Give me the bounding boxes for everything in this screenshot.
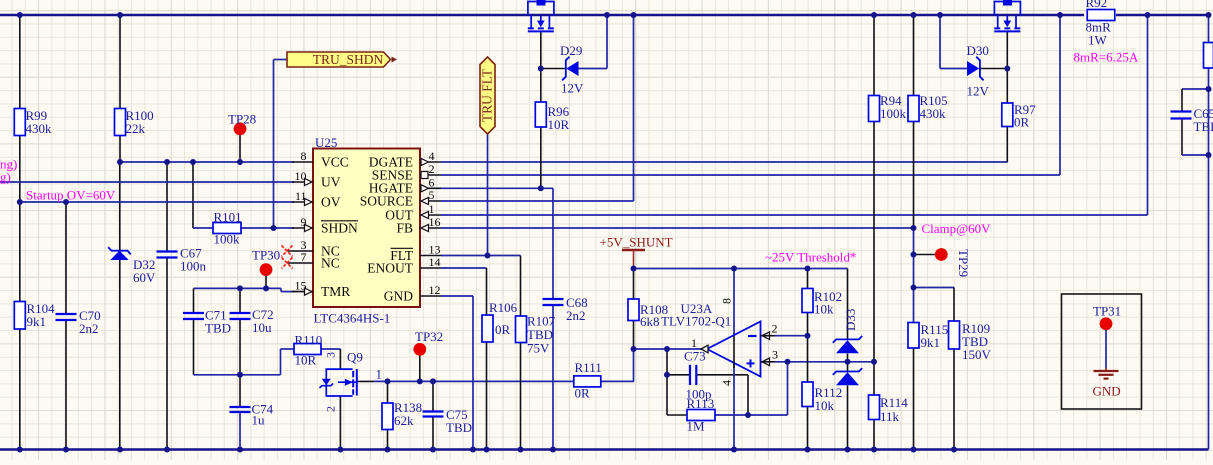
svg-text:2n2: 2n2 — [79, 321, 99, 336]
svg-text:g): g) — [0, 170, 11, 185]
resistor R92 — [1086, 0, 1115, 35]
svg-text:12V: 12V — [561, 81, 584, 96]
wire D30 anode lead — [940, 68, 967, 70]
wire C74 to gnd bus — [239, 412, 241, 450]
svg-text:TP30: TP30 — [252, 248, 280, 263]
svg-text:1u: 1u — [252, 413, 266, 428]
resistor R94 — [869, 93, 907, 122]
wire VIN bus top — [0, 14, 1084, 16]
junction — [805, 447, 811, 453]
wire feedback branch — [666, 349, 668, 415]
svg-text:1: 1 — [376, 367, 383, 382]
wire R102 bottom — [807, 313, 809, 336]
junction — [117, 12, 123, 18]
wire TRU FLT port to FLT line — [487, 134, 489, 256]
junction — [417, 378, 423, 384]
junction — [805, 266, 811, 272]
capacitor C72 — [230, 307, 274, 335]
junction — [731, 266, 737, 272]
junction — [263, 285, 269, 291]
wire C72 top lead — [239, 288, 241, 313]
svg-text:5: 5 — [429, 188, 435, 202]
wire to R109 — [914, 287, 955, 289]
resistor R97 — [1002, 102, 1036, 130]
capacitor C75 — [423, 407, 473, 435]
wire C74 top lead — [239, 375, 241, 407]
resistor R100 — [115, 108, 154, 136]
svg-text:10k: 10k — [815, 398, 835, 413]
resistor R108 — [628, 299, 639, 321]
wire Q-dg gate to R97 — [1006, 31, 1008, 103]
junction — [237, 159, 243, 165]
junction — [117, 447, 123, 453]
wire R110 left lead — [281, 348, 295, 350]
wire C72 bottom lead — [239, 319, 241, 375]
wire VCC to D32 — [119, 162, 121, 251]
junction — [518, 447, 524, 453]
wire TRU_SHDN to SHDN pin — [273, 60, 275, 229]
svg-text:+5V_SHUNT: +5V_SHUNT — [600, 235, 673, 250]
wire R114 top — [873, 362, 875, 395]
svg-text:0R: 0R — [575, 386, 591, 401]
junction — [845, 447, 851, 453]
wire R138 bottom — [387, 430, 389, 450]
svg-text:150V: 150V — [962, 347, 992, 362]
zener diode D32 — [108, 247, 156, 285]
capacitor C71 — [183, 308, 231, 336]
junction — [117, 159, 123, 165]
transistor Q sense — [994, 0, 1020, 31]
junction — [731, 447, 737, 453]
wire C65 top lead — [1181, 89, 1183, 112]
junction — [871, 12, 877, 18]
svg-text:16: 16 — [429, 215, 441, 229]
svg-text:4: 4 — [720, 380, 734, 386]
wire R107 to gnd bus — [520, 343, 522, 450]
wire +5V to D33 — [847, 269, 849, 340]
junction — [1004, 66, 1010, 72]
svg-text:60V: 60V — [133, 270, 156, 285]
wire opamp pin 4 to gnd bus — [733, 363, 735, 450]
svg-text:22k: 22k — [126, 121, 146, 136]
wire R105 top — [913, 15, 915, 96]
svg-text:R110: R110 — [295, 333, 323, 348]
junction — [470, 447, 476, 453]
resistor R106 — [482, 315, 493, 342]
junction — [911, 252, 917, 258]
wire Q-hs gate to R96 — [540, 31, 542, 102]
resistor R138 — [382, 400, 422, 430]
label R109 — [962, 321, 992, 362]
svg-text:3: 3 — [324, 352, 338, 358]
svg-text:4: 4 — [429, 149, 435, 163]
svg-text:D30: D30 — [967, 43, 989, 58]
junction — [604, 12, 610, 18]
svg-text:8: 8 — [301, 149, 307, 163]
wire R109 top — [953, 288, 955, 322]
test point TP28 — [228, 112, 256, 136]
wire UV line — [0, 181, 294, 183]
zener diode D29 — [560, 43, 584, 96]
wire C65 top branch — [1182, 88, 1209, 90]
svg-text:Q9: Q9 — [347, 350, 363, 365]
wire R109 bottom — [953, 349, 955, 450]
capacitor C67 — [157, 246, 207, 274]
svg-text:R113: R113 — [687, 396, 715, 411]
wire R112 top — [807, 336, 809, 382]
resistor R109 — [949, 321, 960, 349]
wire R104 to gnd bus — [19, 329, 21, 450]
wire comparator output to R111 — [633, 349, 635, 381]
wire pin2 line — [775, 335, 808, 337]
svg-text:Clamp@60V: Clamp@60V — [922, 221, 992, 236]
svg-text:TRU_SHDN: TRU_SHDN — [313, 52, 384, 67]
junction — [845, 359, 851, 365]
wire FB node down — [913, 228, 915, 323]
junction — [664, 372, 670, 378]
wire IC GND to bus — [472, 296, 474, 450]
resistor right edge — [1204, 43, 1213, 69]
no-connect X pin 7 — [282, 258, 293, 269]
wire Q9 drain stub — [357, 380, 374, 382]
svg-text:R92: R92 — [1086, 0, 1108, 10]
label R106 — [489, 300, 518, 337]
junction — [664, 346, 670, 352]
svg-text:100k: 100k — [880, 106, 907, 121]
svg-text:D33: D33 — [843, 309, 858, 331]
junction — [550, 447, 556, 453]
wire HGATE line — [441, 187, 553, 189]
wire R97 to DGATE — [1006, 127, 1008, 163]
wire OUT line — [441, 214, 1148, 216]
junction — [17, 12, 23, 18]
wire R96 to HGATE — [540, 127, 542, 188]
wire comparator output line — [634, 348, 702, 350]
svg-text:TLV1702-Q1: TLV1702-Q1 — [661, 314, 731, 329]
wire Q9 drain line — [374, 380, 574, 382]
wire TP30 stub — [265, 276, 267, 288]
wire TMR line — [194, 287, 282, 289]
wire right column down — [1208, 68, 1210, 450]
op-amp U23A comparator — [661, 298, 778, 386]
svg-text:TMR: TMR — [321, 284, 350, 299]
wire R101 left lead — [193, 227, 213, 229]
junction — [385, 447, 391, 453]
resistor R101 — [213, 210, 242, 247]
svg-text:ENOUT: ENOUT — [367, 261, 413, 276]
junction — [871, 359, 877, 365]
wire R108 top — [633, 269, 635, 300]
IC U25 LTC4364HS-1 — [287, 135, 441, 326]
junction — [337, 447, 343, 453]
wire C68 top lead — [552, 188, 554, 299]
dual zener diode D33 — [833, 309, 862, 386]
svg-text:UV: UV — [321, 175, 341, 190]
wire C73 right lead — [697, 374, 749, 376]
label R107 — [527, 314, 556, 356]
junction — [631, 346, 637, 352]
svg-text:2: 2 — [324, 406, 338, 412]
wire R113 left lead — [667, 414, 687, 416]
svg-text:8mR=6.25A: 8mR=6.25A — [1074, 50, 1139, 65]
wire SENSE to R92 left — [1059, 15, 1061, 175]
svg-text:~25V Threshold*: ~25V Threshold* — [765, 250, 856, 265]
wire C70 to gnd bus — [65, 320, 67, 450]
junction — [631, 12, 637, 18]
junction — [17, 199, 23, 205]
transistor Q high-side — [528, 0, 554, 31]
svg-text:TP31: TP31 — [1093, 304, 1121, 319]
wire R110 to Q9 gate — [321, 348, 340, 350]
test point TP29 — [935, 248, 948, 261]
wire VCC line — [120, 161, 294, 163]
wire R94 top — [873, 15, 875, 96]
svg-text:430k: 430k — [26, 121, 53, 136]
wire C68 to gnd bus — [552, 305, 554, 450]
svg-text:0R: 0R — [495, 322, 511, 337]
resistor R105 — [908, 93, 948, 122]
svg-text:9k1: 9k1 — [27, 314, 47, 329]
wire feedback to pin3 — [787, 362, 789, 415]
wire pin3 line — [775, 361, 875, 363]
wire R105 to FB — [913, 121, 915, 228]
svg-text:7: 7 — [301, 250, 307, 264]
wire Q9 gate pin 3 — [339, 349, 341, 369]
junction — [385, 378, 391, 384]
svg-text:2: 2 — [429, 162, 435, 176]
junction — [237, 447, 243, 453]
junction — [871, 447, 877, 453]
label R114 — [880, 395, 908, 424]
junction — [911, 12, 917, 18]
junction — [1206, 12, 1212, 18]
svg-text:8: 8 — [720, 298, 734, 304]
wire GND bus bottom — [0, 448, 1209, 450]
wire FB line — [441, 227, 914, 229]
wire D29 anode lead — [579, 68, 608, 70]
port TRU FLT — [480, 57, 495, 134]
svg-text:1: 1 — [429, 202, 435, 216]
wire FLT to R107 — [520, 256, 522, 317]
svg-text:12V: 12V — [967, 84, 990, 99]
port TRU_SHDN — [287, 52, 397, 67]
wire R99 top — [19, 15, 21, 109]
svg-text:11k: 11k — [880, 409, 900, 424]
svg-text:10R: 10R — [548, 117, 570, 132]
junction — [1206, 152, 1212, 158]
wire C75 bottom — [432, 417, 434, 450]
svg-text:D29: D29 — [560, 43, 582, 58]
svg-text:R114: R114 — [880, 395, 908, 410]
capacitor C68 — [543, 295, 588, 323]
junction — [631, 266, 637, 272]
capacitor C65 — [1171, 106, 1213, 134]
wire D30 cathode lead — [980, 68, 1007, 70]
wire OUT to R92 right — [1147, 15, 1149, 215]
wire VCC to R101 — [192, 162, 194, 228]
junction — [63, 447, 69, 453]
resistor R112 — [802, 382, 813, 407]
wire +5V_SHUNT line — [634, 268, 848, 270]
wire D29 to bus — [606, 15, 608, 69]
svg-text:VCC: VCC — [321, 155, 349, 170]
junction — [1145, 12, 1151, 18]
no-connect X pin 3 — [282, 246, 293, 257]
resistor R104 — [14, 301, 55, 329]
test point TP32 — [413, 329, 443, 356]
svg-text:Startup OV=60V: Startup OV=60V — [26, 188, 116, 203]
wire R100 top — [119, 15, 121, 109]
svg-text:TP32: TP32 — [415, 329, 443, 344]
resistor R99 — [14, 108, 52, 136]
junction — [485, 253, 491, 259]
junction — [937, 12, 943, 18]
svg-text:SHDN: SHDN — [321, 221, 358, 236]
junction — [164, 447, 170, 453]
wire D29 cathode lead — [541, 68, 566, 70]
svg-text:C73: C73 — [684, 349, 706, 364]
wire R115 bottom — [913, 348, 915, 450]
wire C65 bottom branch — [1182, 154, 1209, 156]
svg-text:2: 2 — [772, 322, 778, 336]
svg-text:TRU FLT: TRU FLT — [480, 68, 495, 122]
junction — [164, 159, 170, 165]
wire TP28 stub — [239, 135, 241, 162]
svg-text:1M: 1M — [687, 419, 706, 434]
svg-text:10k: 10k — [814, 302, 834, 317]
resistor R96 — [535, 102, 569, 132]
wire TP32 stub — [419, 356, 421, 382]
junction — [1206, 86, 1212, 92]
label R112 — [815, 385, 843, 413]
transistor Q9 — [320, 350, 383, 413]
junction — [17, 447, 23, 453]
wire R102 top — [807, 269, 809, 289]
wire C67 to gnd bus — [166, 258, 168, 450]
wire OV line — [20, 201, 294, 203]
svg-text:1W: 1W — [1088, 33, 1108, 48]
junction — [237, 372, 243, 378]
wire C71 top lead — [193, 288, 195, 313]
wire opamp pin 8 supply — [733, 269, 735, 337]
junction — [1057, 12, 1063, 18]
wire R111 right lead — [601, 380, 634, 382]
resistor R114 — [869, 395, 880, 420]
wire R110 left drop — [280, 349, 282, 375]
wire D30 to bus — [939, 15, 941, 69]
resistor R102 — [802, 289, 813, 313]
wire port TRU_SHDN stub — [274, 59, 288, 61]
resistor R111 — [574, 360, 602, 401]
wire R94 to pin3 line — [873, 121, 875, 362]
svg-text:SOURCE: SOURCE — [360, 194, 413, 209]
svg-text:75V: 75V — [527, 341, 550, 356]
svg-text:10R: 10R — [295, 353, 317, 368]
wire C65 bottom lead — [1181, 119, 1183, 156]
wire R99 to R104 — [19, 136, 21, 302]
wire C75 top — [432, 381, 434, 411]
svg-text:62k: 62k — [394, 413, 414, 428]
svg-text:GND: GND — [1093, 384, 1121, 399]
wire R113 right line — [715, 414, 788, 416]
junction — [538, 185, 544, 191]
wire ENOUT line — [441, 267, 487, 269]
wire C73 left lead — [667, 374, 690, 376]
svg-text:R111: R111 — [575, 360, 602, 375]
resistor R113 — [687, 396, 716, 434]
svg-text:0R: 0R — [1014, 115, 1030, 130]
label R92 extra — [1074, 33, 1139, 65]
wire R112 bottom — [807, 407, 809, 450]
wire SENSE line — [441, 174, 1060, 176]
wire Q9 source pin 2 — [339, 396, 341, 450]
svg-text:TBD: TBD — [205, 321, 231, 336]
wire VCC to C67 — [166, 162, 168, 252]
wire TP29 stub — [914, 254, 936, 256]
wire OV to C70 — [65, 202, 67, 314]
svg-text:3: 3 — [772, 348, 778, 362]
wire TMR jog — [280, 288, 282, 291]
wire R108 bottom — [633, 321, 635, 350]
junction — [745, 412, 751, 418]
svg-text:GND: GND — [384, 289, 413, 304]
svg-text:14: 14 — [429, 255, 441, 269]
wire D32 to gnd bus — [119, 260, 121, 450]
junction — [430, 447, 436, 453]
svg-text:2n2: 2n2 — [566, 308, 586, 323]
junction — [951, 447, 957, 453]
capacitor C73 — [684, 349, 712, 402]
svg-text:NC: NC — [321, 256, 340, 271]
svg-text:TP29: TP29 — [956, 249, 971, 277]
junction — [190, 159, 196, 165]
svg-text:U25: U25 — [315, 135, 337, 150]
label R115 — [921, 322, 949, 350]
wire FLT line — [441, 255, 521, 257]
svg-text:10u: 10u — [252, 320, 272, 335]
svg-text:LTC4364HS-1: LTC4364HS-1 — [314, 311, 391, 326]
capacitor C70 — [56, 308, 101, 336]
svg-text:100n: 100n — [180, 259, 207, 274]
wire R114 bottom — [873, 420, 875, 450]
capacitor C74 — [230, 402, 274, 428]
wire ENOUT to R106 — [486, 268, 488, 315]
label R108 — [640, 302, 668, 329]
wire SOURCE line — [441, 200, 634, 202]
svg-text:R101: R101 — [214, 210, 242, 225]
wire cap bottom line — [194, 374, 281, 376]
junction — [911, 285, 917, 291]
wire bus top right of R92 — [1116, 14, 1209, 16]
wire right column top — [1208, 15, 1210, 43]
svg-text:FB: FB — [396, 221, 413, 236]
svg-text:6k8: 6k8 — [640, 314, 660, 329]
zener diode D30 — [967, 43, 990, 99]
wire R138 top — [387, 381, 389, 403]
resistor R115 — [908, 323, 919, 349]
svg-text:12: 12 — [429, 283, 441, 297]
wire D33 to gnd bus — [847, 386, 849, 450]
junction — [538, 66, 544, 72]
junction — [271, 225, 277, 231]
svg-text:OV: OV — [321, 195, 341, 210]
label R102 — [814, 289, 842, 317]
wire SHDN line — [241, 227, 294, 229]
svg-text:430k: 430k — [920, 106, 947, 121]
wire TMR to pin15 — [281, 291, 294, 293]
wire DGATE line — [441, 161, 1008, 163]
test point TP30 — [252, 248, 280, 277]
